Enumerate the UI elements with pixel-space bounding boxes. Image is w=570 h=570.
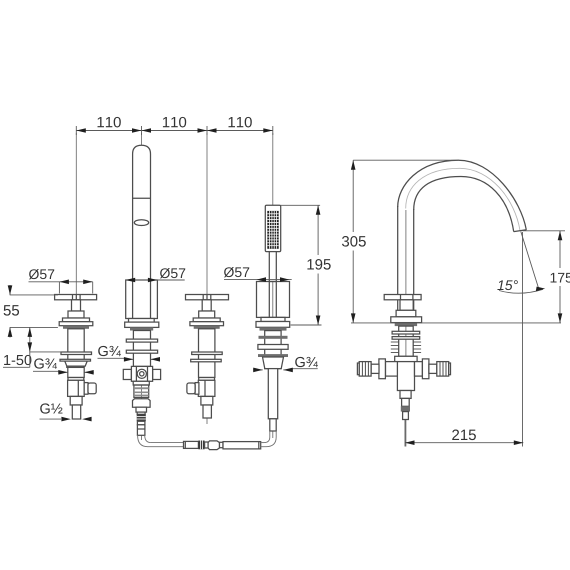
dim 305 (353, 159, 459, 161)
spout front shank (133, 331, 150, 367)
valve1 shank (68, 329, 84, 378)
spout tail tube (137, 425, 145, 436)
handshower washer (258, 345, 288, 350)
hose fitting cylinder1 (184, 441, 199, 448)
diverter body (131, 366, 152, 381)
valve2 handle bar (186, 295, 229, 300)
valve1 mounting nut (65, 361, 87, 366)
side left port pipe (371, 364, 379, 373)
side shank (399, 326, 414, 356)
angle arc 15deg (499, 289, 543, 293)
hose left bend (138, 435, 149, 446)
dim 195 (281, 204, 320, 206)
spout hose step (136, 407, 147, 412)
hose left run (151, 442, 184, 444)
side right port knurl (437, 362, 449, 377)
side view riser (397, 206, 399, 310)
side right port pipe (429, 364, 437, 373)
side tail tube (403, 412, 409, 420)
handshower flange step (261, 317, 285, 321)
valve2 side port cap (187, 383, 195, 394)
valve2 stem (202, 300, 211, 311)
spout front gasket (130, 327, 153, 330)
dim 215 (404, 420, 406, 447)
spout front column (133, 145, 151, 318)
dim 1-50 (4, 355, 31, 365)
side right port nut (422, 359, 429, 379)
spout front washer1 (126, 339, 157, 342)
dim 110 line (76, 130, 272, 132)
valve1 gasket (63, 326, 89, 329)
valve1 side port flange (84, 383, 88, 395)
label G3/4 valve1 (34, 358, 57, 368)
label G3/4 handshower (295, 357, 318, 367)
centerline valve1 (75, 133, 77, 412)
spout axis extension (521, 232, 539, 291)
handshower flange plate (256, 322, 290, 328)
valve2 handle hub (202, 295, 204, 300)
valve2 rosette plate (190, 322, 224, 326)
valve1 handle hub (72, 295, 74, 300)
spout front washer2 (126, 350, 157, 353)
side view centerline (405, 210, 407, 447)
spout front flange step (129, 319, 155, 323)
valve1 rosette step (63, 318, 90, 322)
hose right run (261, 442, 264, 444)
dim 175 (523, 230, 566, 232)
hose fitting knurl (198, 441, 204, 450)
spout front housing (126, 280, 158, 319)
spout front column section line (133, 197, 151, 199)
side gasket (395, 323, 417, 327)
diverter screw circle (137, 369, 146, 378)
valve2 washer1 (192, 352, 223, 355)
valve2 bottom block (201, 396, 213, 405)
side body step (400, 391, 411, 399)
valve2 body top ring (199, 378, 215, 381)
valve2 tail pipe (203, 405, 211, 418)
handshower nut (263, 357, 284, 369)
handshower shank (265, 331, 281, 369)
handshower dark band (259, 336, 288, 339)
spout front flange plate (125, 322, 159, 327)
side stem (400, 300, 413, 311)
diverter right wing (153, 369, 161, 379)
label G1/2 valve1 (40, 403, 62, 413)
valve1 washer2 (60, 359, 91, 361)
hose fitting cylinder2 (223, 442, 261, 449)
side body (397, 362, 414, 391)
valve1 tail pipe (72, 405, 80, 419)
side washers (392, 331, 420, 334)
valve2 side port flange (195, 383, 199, 395)
dim Ø57 spout (160, 268, 185, 278)
side left port nut (379, 359, 386, 379)
outlet vertical reference (522, 232, 524, 447)
diverter left wing (123, 369, 131, 379)
spout hose nut (133, 399, 151, 407)
side handle bar (384, 295, 421, 300)
gooseneck outer curve (398, 160, 527, 230)
valve1 rosette plate (59, 322, 93, 326)
dim 110 labels (98, 117, 121, 128)
valve1 stem (72, 300, 81, 311)
spout hose knurl (137, 414, 146, 421)
label 15deg (497, 280, 517, 290)
side left port knurl (359, 362, 371, 377)
hose fitting neck (220, 442, 224, 447)
valve2 gasket (194, 326, 220, 329)
gooseneck middle line (406, 168, 520, 230)
side left port flange (386, 362, 398, 377)
valve2 body (198, 380, 215, 396)
hose fitting taper (208, 441, 219, 450)
valve1 handle bar (55, 295, 97, 300)
handshower dark band2 (258, 354, 288, 357)
side thread ticks (391, 342, 421, 353)
valve1 bottom block (70, 396, 82, 405)
side tail (402, 398, 410, 406)
handshower holder (257, 282, 290, 318)
dim Ø57 handshower (224, 267, 249, 277)
valve1 body top ring (68, 378, 84, 381)
valve1 side port cap (88, 383, 96, 394)
spout outlet face (514, 230, 527, 232)
valve1 collar (68, 311, 84, 318)
spout ribs (134, 385, 149, 397)
centerline handshower (272, 133, 274, 438)
side flange plate (391, 317, 422, 323)
valve2 collar (199, 311, 215, 318)
label G3/4 spout (98, 346, 121, 356)
side deck line (351, 322, 561, 324)
gooseneck inner curve (414, 177, 514, 232)
handshower shaft (269, 252, 276, 282)
handshower tail tube (268, 369, 277, 419)
valve2 washer2 (191, 359, 222, 362)
dim 55 (4, 305, 19, 315)
handshower gasket (260, 327, 287, 330)
dim Ø57 valve1 (29, 269, 54, 279)
centerline valve2 (206, 133, 208, 424)
spout tail step (137, 421, 145, 425)
handshower spray grid (267, 211, 278, 249)
centerline spout front (141, 133, 143, 440)
side collar (396, 310, 416, 317)
handshower tail narrow (270, 419, 276, 431)
valve2 rosette step (193, 318, 220, 322)
spout front outlet ellipse (134, 220, 148, 226)
side tail knurl (401, 406, 410, 411)
side right port flange (415, 362, 423, 377)
handshower head (265, 205, 280, 251)
hose fitting ring (205, 442, 209, 448)
hose right bend (264, 431, 276, 447)
valve2 shank (199, 329, 215, 378)
valve1 body (68, 380, 85, 396)
diverter step (133, 381, 149, 385)
side nut (395, 356, 417, 361)
valve1 washer1 (61, 352, 92, 355)
valve1 nut ring (67, 366, 84, 367)
